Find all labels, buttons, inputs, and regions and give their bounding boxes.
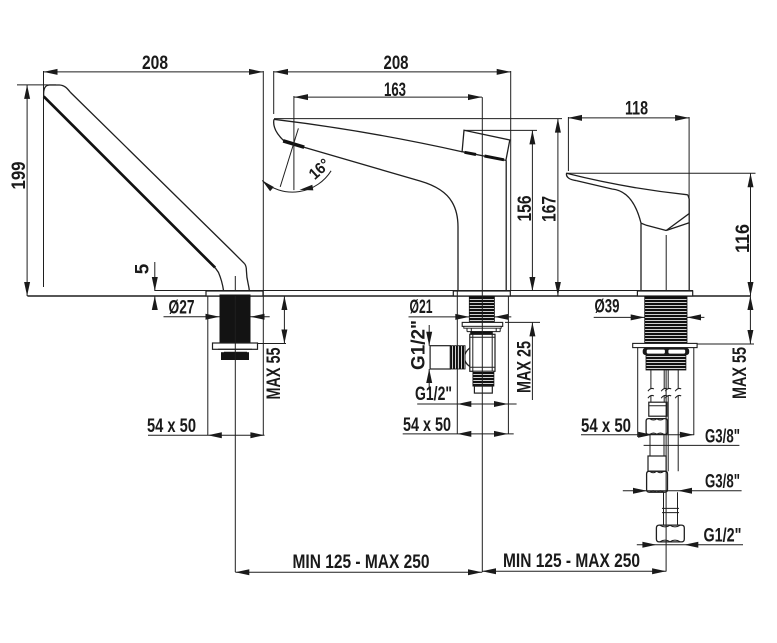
body inner vertical	[665, 235, 667, 291]
front tube	[651, 370, 664, 402]
valve side white block	[430, 346, 450, 369]
spout riser right edge	[505, 160, 507, 291]
tube break dashes	[648, 388, 681, 398]
handle bottom edge concave	[577, 181, 641, 223]
dim 54x50 middle	[403, 291, 514, 437]
spout bottom edge with elbow	[304, 147, 458, 291]
svg-text:G3/8": G3/8"	[705, 427, 740, 448]
right nut	[643, 348, 689, 354]
deck bottom line	[27, 295, 750, 297]
dim 5	[133, 262, 158, 310]
svg-text:163: 163	[384, 80, 406, 101]
svg-text:G1/2": G1/2"	[415, 384, 452, 405]
svg-text:Ø27: Ø27	[169, 298, 195, 319]
dim G38 no1	[644, 427, 740, 448]
aerator block	[462, 130, 510, 160]
hand shower handle end right edge	[245, 264, 250, 291]
svg-text:54 x 50: 54 x 50	[403, 415, 451, 436]
handle top edge	[567, 173, 688, 195]
hand shower wand upper edge	[70, 92, 245, 264]
valve bottom threads	[473, 371, 494, 386]
rear tube	[668, 370, 678, 471]
middle centerline	[481, 97, 483, 572]
G12 nut bottom	[656, 525, 684, 542]
dim MAX25	[505, 322, 540, 400]
svg-text:MIN 125 - MAX 250: MIN 125 - MAX 250	[293, 552, 430, 573]
spout aerator face (thick)	[283, 141, 304, 147]
dim d21	[409, 297, 512, 320]
svg-text:MAX 55: MAX 55	[264, 347, 285, 399]
body left edge	[640, 223, 642, 291]
middle flange plate on deck	[453, 291, 510, 296]
svg-text:MIN 125 - MAX 250: MIN 125 - MAX 250	[503, 551, 640, 572]
body right edge	[688, 214, 690, 292]
hand shower handle end left edge	[215, 268, 224, 291]
svg-text:118: 118	[625, 99, 648, 120]
left washer small line	[218, 349, 252, 352]
svg-text:199: 199	[9, 162, 30, 190]
dim d39	[594, 296, 705, 320]
collar above nut2	[648, 456, 666, 471]
right threaded shank	[645, 297, 687, 343]
left shank tail black	[221, 352, 249, 360]
valve tail	[474, 386, 492, 393]
G38 nut 1	[646, 419, 667, 435]
aerator bottom thick dashes	[465, 152, 505, 160]
svg-text:116: 116	[733, 224, 754, 253]
body neck lines	[641, 223, 689, 231]
svg-text:MAX 55: MAX 55	[730, 347, 751, 399]
handle right end	[666, 195, 689, 231]
dim 199	[9, 85, 56, 296]
valve side threads	[450, 346, 465, 369]
dim d27	[164, 298, 270, 320]
deck top line	[155, 290, 693, 292]
dim MAX55 left	[257, 296, 287, 400]
svg-text:Ø39: Ø39	[595, 296, 620, 317]
rosette dark band	[470, 331, 493, 334]
dim 163	[294, 80, 482, 190]
middle threaded shank	[469, 297, 494, 322]
dim MIN125-MAX250 left	[235, 552, 482, 575]
svg-text:208: 208	[384, 53, 409, 74]
dim 167	[274, 119, 562, 296]
spout top edge	[274, 119, 462, 151]
dim G38 no2	[623, 472, 742, 494]
middle rosette rim	[464, 326, 501, 328]
dim 208 middle	[274, 53, 511, 291]
svg-text:54 x 50: 54 x 50	[147, 416, 196, 437]
dim G12 bottom outlet	[415, 384, 517, 407]
right washer flange	[633, 343, 697, 347]
left nut washer	[213, 343, 258, 349]
dim G12 no3	[637, 526, 743, 548]
spout tip left edge	[274, 119, 285, 141]
lower tube collar	[662, 508, 679, 512]
dim 208 left: line and extensions	[44, 53, 264, 435]
svg-text:MAX 25: MAX 25	[515, 341, 536, 393]
valve left bulge	[465, 348, 470, 367]
rosette legs	[467, 328, 500, 331]
right flange plate on deck	[637, 291, 692, 296]
handle tip left edge	[566, 173, 576, 180]
left flange plate on deck	[206, 291, 263, 296]
svg-text:Ø21: Ø21	[410, 297, 433, 318]
right threads 2	[646, 355, 686, 370]
svg-text:208: 208	[142, 53, 168, 74]
dim 16 deg	[262, 128, 334, 192]
lower tube	[664, 492, 678, 525]
svg-text:54 x 50: 54 x 50	[581, 416, 631, 437]
dim MIN125-MAX250 right	[482, 551, 666, 574]
left shank black	[220, 295, 251, 344]
svg-text:G1/2": G1/2"	[704, 526, 742, 547]
dim G12 side rotated	[408, 320, 432, 390]
svg-text:167: 167	[540, 196, 561, 222]
middle rosette plate	[462, 322, 503, 326]
svg-text:5: 5	[133, 263, 154, 274]
dim MAX55 right	[697, 296, 754, 399]
front connector	[649, 402, 667, 416]
dim 54x50 left	[147, 296, 265, 438]
left fixture centerline	[234, 296, 236, 572]
hand shower spray face (thick)	[44, 96, 215, 267]
svg-text:156: 156	[515, 196, 536, 222]
dim 156	[464, 130, 537, 291]
svg-text:G3/8": G3/8"	[705, 472, 740, 493]
hand shower head cap	[44, 85, 71, 96]
dim 116	[566, 173, 756, 296]
right centerline below	[665, 370, 667, 572]
stem between nuts	[650, 434, 664, 456]
holder centerline	[234, 276, 236, 291]
svg-text:G1/2": G1/2"	[408, 320, 429, 370]
dim 118	[568, 99, 689, 214]
dim 54x50 right	[581, 348, 694, 438]
valve body	[470, 334, 495, 371]
G38 nut 2	[647, 471, 668, 492]
